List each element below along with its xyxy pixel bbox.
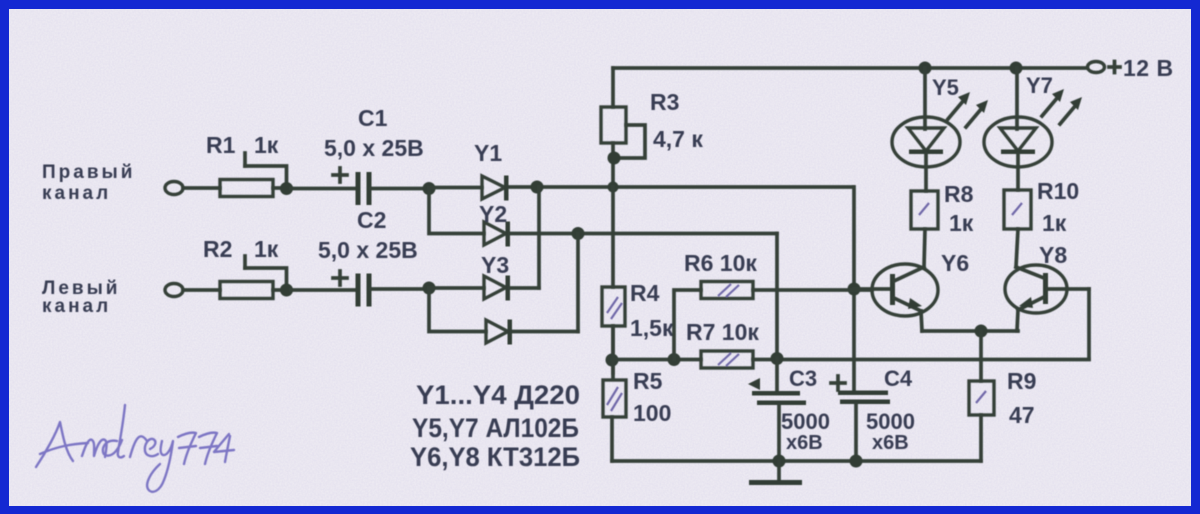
wire V2-V4 vertical xyxy=(576,234,580,332)
wire R1 to C1 xyxy=(291,187,356,191)
wire R2 to C2 xyxy=(291,288,356,292)
LED V5 arrows xyxy=(948,92,988,127)
node V2/V4 tie xyxy=(572,227,585,240)
capacitor C1 xyxy=(324,105,424,205)
capacitor C3 xyxy=(748,358,845,461)
node V6 base junction xyxy=(848,283,861,296)
svg-text:Y3: Y3 xyxy=(481,252,509,278)
svg-text:1к: 1к xyxy=(1042,210,1067,236)
wire row left segment xyxy=(612,358,701,362)
node V1 row / R3 bottom xyxy=(608,182,619,193)
resistor R6 xyxy=(684,250,757,299)
resistor R9 xyxy=(969,368,1036,461)
wire row right segment xyxy=(753,358,1089,362)
wire C2 to node xyxy=(371,287,429,291)
node: rail-V7 junction xyxy=(1010,62,1023,75)
capacitor C4 xyxy=(838,366,915,461)
LED V7 arrows xyxy=(1042,89,1082,124)
svg-text:Y6,Y8 КТ312Б: Y6,Y8 КТ312Б xyxy=(410,442,580,472)
svg-text:5,0 х 25В: 5,0 х 25В xyxy=(318,237,418,263)
wire node to V1 xyxy=(429,186,482,190)
input terminal right channel xyxy=(42,162,220,204)
wire V2 net corner down xyxy=(775,234,779,359)
svg-text:R8: R8 xyxy=(944,181,974,207)
wire V4 out xyxy=(512,330,578,334)
svg-text:R4: R4 xyxy=(630,280,660,306)
diode V2 xyxy=(479,201,510,247)
svg-text:5,0 х 25В: 5,0 х 25В xyxy=(324,135,424,161)
svg-text:Y5,Y7 АЛ102Б: Y5,Y7 АЛ102Б xyxy=(412,413,579,443)
svg-text:R7 10к: R7 10к xyxy=(686,319,759,345)
svg-text:R1: R1 xyxy=(206,132,236,158)
wire C1 to node xyxy=(371,187,429,191)
svg-text:1,5к: 1,5к xyxy=(630,315,674,341)
svg-text:R5: R5 xyxy=(633,368,663,394)
svg-text:Y7: Y7 xyxy=(1026,73,1053,98)
resistor R10 xyxy=(1004,178,1079,236)
node V1/V3 tie xyxy=(531,181,544,194)
wire rail to R3 xyxy=(611,68,615,107)
diode V1 xyxy=(474,140,509,201)
svg-text:47: 47 xyxy=(1009,402,1035,428)
input terminal left channel xyxy=(42,278,220,317)
svg-text:Y6: Y6 xyxy=(941,250,969,276)
node C3 top xyxy=(771,352,784,365)
svg-text:1к: 1к xyxy=(949,210,974,236)
svg-text:C1: C1 xyxy=(358,105,388,131)
wire V8 base feedback xyxy=(1087,289,1091,359)
node: rail-V5 junction xyxy=(919,62,932,75)
LED V5 xyxy=(892,68,960,191)
capacitor C2 xyxy=(318,207,418,307)
svg-text:Y1: Y1 xyxy=(474,140,502,166)
wire V1-V3 vertical xyxy=(537,187,541,288)
wire V3 out xyxy=(510,286,539,290)
resistor R5 xyxy=(603,326,671,461)
svg-text:R9: R9 xyxy=(1007,368,1036,394)
transistor V6 xyxy=(854,250,969,331)
svg-text:Y8: Y8 xyxy=(1039,242,1067,268)
parts list xyxy=(410,380,580,472)
node R4/R5/row junction xyxy=(606,354,619,367)
node emitters xyxy=(975,325,988,338)
wire V1 row xyxy=(509,185,853,189)
svg-text:C3: C3 xyxy=(789,366,817,391)
node C1 out xyxy=(423,182,436,195)
svg-text:Y2: Y2 xyxy=(479,201,507,227)
wire to V4 xyxy=(429,288,486,332)
transistor V8 xyxy=(1005,242,1089,331)
svg-text:Правый: Правый xyxy=(42,162,135,183)
svg-text:Y1...Y4 Д220: Y1...Y4 Д220 xyxy=(416,380,580,410)
diode V3 xyxy=(481,252,510,301)
svg-text:х6В: х6В xyxy=(872,432,909,454)
node C2 out xyxy=(423,282,436,295)
resistor R1 xyxy=(206,132,293,197)
emitter row xyxy=(922,329,1018,333)
wire to V2 xyxy=(429,189,484,234)
resistor R3 xyxy=(601,89,703,186)
svg-text:C2: C2 xyxy=(357,207,386,233)
svg-text:4,7 к: 4,7 к xyxy=(653,126,703,152)
wire R10 to V8 xyxy=(1016,229,1018,267)
svg-text:5000: 5000 xyxy=(866,409,915,434)
svg-text:х6В: х6В xyxy=(786,432,823,454)
wire R6 left branch xyxy=(674,290,701,360)
LED V7 xyxy=(984,68,1053,190)
wire node to V3 xyxy=(429,286,484,290)
svg-text:R10: R10 xyxy=(1037,178,1079,204)
wire V2 row to corner xyxy=(510,232,777,236)
resistor R8 xyxy=(911,181,974,236)
signature xyxy=(36,405,234,492)
top +12V rail wire xyxy=(613,66,1087,70)
svg-text:Y5: Y5 xyxy=(932,75,959,100)
node C4 bottom xyxy=(850,455,863,468)
svg-text:12 В: 12 В xyxy=(1123,55,1174,81)
+12V terminal xyxy=(1088,55,1174,81)
svg-text:100: 100 xyxy=(633,400,671,426)
svg-text:1к: 1к xyxy=(254,236,279,262)
wire to R9 xyxy=(979,331,983,381)
resistor R2 xyxy=(203,236,293,299)
resistor R7 xyxy=(686,319,759,368)
ground xyxy=(749,461,802,485)
svg-text:R2: R2 xyxy=(203,236,232,262)
node R6R7 left xyxy=(668,353,681,366)
bottom rail xyxy=(612,459,981,463)
resistor R4 xyxy=(602,187,674,373)
svg-text:C4: C4 xyxy=(884,366,913,391)
svg-text:R3: R3 xyxy=(650,89,679,115)
svg-text:R6 10к: R6 10к xyxy=(684,250,757,276)
svg-text:канал: канал xyxy=(42,183,111,204)
svg-text:5000: 5000 xyxy=(781,409,830,434)
wire main vertical to V6 base / C4 xyxy=(852,187,856,391)
wire R6 right to V6 base xyxy=(753,288,872,292)
svg-text:канал: канал xyxy=(42,296,111,317)
node C3 bottom xyxy=(773,455,786,468)
wire R8 to V6 xyxy=(924,229,925,267)
svg-text:1к: 1к xyxy=(254,132,279,158)
diode V4 xyxy=(486,320,512,345)
